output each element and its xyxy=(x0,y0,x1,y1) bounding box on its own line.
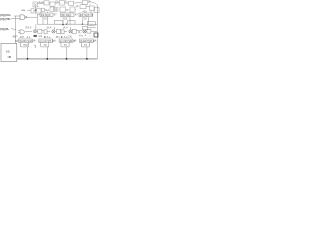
junction dot bus 3 xyxy=(66,58,68,60)
wire F1 pin stub b xyxy=(47,17,49,25)
svg-text:TX: TX xyxy=(44,44,47,47)
junction dot bus 2 xyxy=(46,58,48,60)
flip-flop F3 xyxy=(79,13,93,17)
svg-text:CA: CA xyxy=(55,1,59,4)
svg-text:(A·: (A· xyxy=(53,40,56,43)
wire R3 connector xyxy=(61,46,69,48)
svg-text:(A·X·: (A·X· xyxy=(63,27,69,30)
svg-text:(TA·X: (TA·X xyxy=(25,27,31,30)
scan cell box B1 xyxy=(31,9,34,13)
wire xyxy=(27,9,31,11)
wire F2 pin stub b xyxy=(69,17,71,25)
svg-text:6X: 6X xyxy=(15,40,18,43)
gate G1 xyxy=(20,30,24,34)
junction dot row2 c xyxy=(82,24,83,25)
wire K2 out xyxy=(60,30,62,32)
svg-text:(A·DFY)(R·X: (A·DFY)(R·X xyxy=(80,40,95,43)
wire vertical x37 xyxy=(36,14,38,24)
wire right vertical net FB xyxy=(96,5,98,59)
wire port P2 to gate xyxy=(11,17,20,19)
wire xyxy=(65,2,69,4)
latch box L2 on wire xyxy=(68,21,76,25)
wire R2 connector xyxy=(41,46,49,48)
box K3 xyxy=(72,29,76,33)
wire R1 stem xyxy=(27,47,29,59)
scan cell box B5 xyxy=(70,7,75,12)
svg-text:·A·s·: ·A·s· xyxy=(46,36,51,39)
wire F1 pin stub a xyxy=(42,20,44,25)
svg-text:(A·: (A· xyxy=(33,40,36,43)
wire R4 pin a xyxy=(80,43,82,47)
wire G1 in a xyxy=(18,30,20,32)
wire K1 out xyxy=(42,30,44,32)
wire K4 out xyxy=(91,31,97,33)
label cell4 top gate xyxy=(82,26,87,29)
wire R2 pin b xyxy=(48,43,50,47)
flip-flop R1 xyxy=(19,39,33,42)
junction dot c3 xyxy=(61,36,63,38)
wire xyxy=(74,2,83,4)
wire F1 top stub xyxy=(47,12,49,14)
flip-flop R3 xyxy=(59,39,73,42)
flip-flop R2 xyxy=(39,39,53,42)
clock bus xyxy=(17,58,98,60)
scan cell box A2 xyxy=(44,1,49,5)
xor node X1 xyxy=(33,30,36,33)
svg-text:.c.: .c. xyxy=(84,34,87,37)
box K1 xyxy=(38,29,42,33)
scan cell box B3 xyxy=(50,7,54,11)
svg-text:-1A?·: -1A?· xyxy=(19,36,25,39)
svg-text:(A·: (A· xyxy=(74,40,77,43)
wire X1 out xyxy=(37,30,38,32)
wire xyxy=(55,2,60,4)
svg-text:(X]) (TD›: (X]) (TD› xyxy=(0,17,10,21)
xor node X2 xyxy=(52,30,55,33)
wire horizontal y24 xyxy=(37,23,97,25)
xor node X3 xyxy=(69,30,72,33)
wire xyxy=(53,9,56,11)
box K2 xyxy=(57,29,61,33)
svg-text:AD?: AD? xyxy=(13,35,19,39)
wire R4 pin b xyxy=(88,43,90,47)
wire xyxy=(45,9,46,11)
wire gate output xyxy=(27,16,37,18)
svg-text:(A·X·: (A·X· xyxy=(47,27,53,30)
wire x37 top into F1 xyxy=(37,13,40,15)
wire X2 feed xyxy=(53,27,55,30)
scan cell box A5 xyxy=(69,1,74,5)
wire R4 connector xyxy=(81,46,89,48)
xor node X4 xyxy=(83,30,86,33)
wire xyxy=(65,9,68,11)
junction dot bus 1 xyxy=(27,58,29,60)
wire R1 corner xyxy=(34,45,36,48)
junction dot top xyxy=(35,10,36,11)
wire F2 pin stub a xyxy=(62,20,64,25)
wire R2 pin a xyxy=(40,43,42,47)
scan cell box B6 xyxy=(80,5,86,9)
svg-text:(m·(mY)(X·X: (m·(mY)(X·X xyxy=(40,40,54,43)
svg-text:TCX: TCX xyxy=(82,17,87,20)
scan cell box A3 xyxy=(50,2,55,6)
wire X1 feed xyxy=(35,24,37,30)
svg-text:wa·: wa· xyxy=(22,9,26,12)
svg-text:(As·: (As· xyxy=(39,35,43,38)
wire F3 top stub xyxy=(90,11,92,14)
svg-text:(A: (A xyxy=(76,5,79,8)
svg-text:(X]) (CX›: (X]) (CX› xyxy=(0,13,11,17)
scan cell box A1 xyxy=(33,2,38,7)
wire G1 in b xyxy=(18,32,20,34)
wire xyxy=(34,9,37,11)
wire R1 pin b xyxy=(28,43,30,47)
flip-flop F2 xyxy=(61,13,75,17)
svg-text:TCX: TCX xyxy=(63,17,68,20)
wire X4 out xyxy=(85,31,88,33)
wire enable horizontal to gate xyxy=(14,15,20,17)
scan cell box B2 xyxy=(37,9,42,14)
box dark D1 xyxy=(94,33,98,37)
svg-text:AS: AS xyxy=(6,50,10,54)
scan cell box B2b xyxy=(42,8,45,11)
wire R1 pin a xyxy=(19,43,21,47)
wire F3 pin stub b xyxy=(88,17,90,25)
wire X3 feed xyxy=(69,27,71,30)
scan cell box B4 xyxy=(60,7,66,12)
scan cell box B7 xyxy=(90,6,95,11)
svg-text:(N·DFY)(AX·: (N·DFY)(AX· xyxy=(19,40,33,43)
wire R2 stem xyxy=(46,47,48,59)
junction dot c2 xyxy=(44,36,46,38)
wire X2 out xyxy=(55,30,57,32)
wire R1 connector xyxy=(20,46,28,48)
wire R3 pin b xyxy=(68,43,70,47)
box K4 xyxy=(87,30,91,34)
wire port P3 arrow xyxy=(11,28,16,31)
wire enable vertical x16 xyxy=(14,16,16,43)
junction dot row2 b xyxy=(66,24,67,25)
wire R4 stem xyxy=(86,47,88,59)
latch box L3 on wire xyxy=(87,22,95,26)
wire K3 out xyxy=(76,30,82,32)
flip-flop R4 xyxy=(79,39,93,42)
junction dot bus 4 xyxy=(86,58,88,60)
wire mux stub vertical xyxy=(35,5,37,14)
junction label c1 xyxy=(33,35,37,37)
box K2a xyxy=(44,30,47,34)
svg-text:(X]) (D›: (X]) (D› xyxy=(0,27,9,31)
svg-text:A∧A: A∧A xyxy=(39,0,45,4)
svg-text:TCX: TCX xyxy=(23,44,28,47)
box K3a xyxy=(61,30,64,34)
wire xyxy=(94,8,97,10)
gate A6 xyxy=(83,1,88,5)
svg-text:1A: 1A xyxy=(88,0,91,3)
wire X3 out xyxy=(71,30,73,32)
svg-text:CX]: CX] xyxy=(68,36,72,38)
scan cell box A4 xyxy=(60,1,65,5)
wire top chain A xyxy=(38,3,45,5)
wire R3 stem xyxy=(66,47,68,59)
wire xyxy=(86,6,90,8)
flip-flop F1 xyxy=(40,13,53,17)
controller box AS xyxy=(1,43,17,61)
wire c2 xyxy=(47,31,50,33)
wire F2 top stub xyxy=(69,12,71,13)
latch box L1 on wire xyxy=(54,21,63,25)
scan cell box B8 xyxy=(94,8,99,13)
svg-text:TX: TX xyxy=(84,44,87,47)
wire xyxy=(75,9,76,11)
wire cell4 top xyxy=(87,27,96,29)
wire xyxy=(49,2,50,4)
wire c3 xyxy=(64,31,67,33)
wire R3 pin a xyxy=(60,43,62,47)
junction dot row2 a xyxy=(62,24,64,26)
svg-text:(A: (A xyxy=(94,40,97,43)
wire feedback bend xyxy=(89,2,97,6)
svg-text:TX: TX xyxy=(64,44,67,47)
svg-text:=N: =N xyxy=(7,56,10,59)
AND gate U1 xyxy=(20,15,27,20)
scan cell box B3b xyxy=(54,7,58,11)
wire F3 pin stub a xyxy=(81,20,83,25)
wire G1 out xyxy=(25,31,32,33)
